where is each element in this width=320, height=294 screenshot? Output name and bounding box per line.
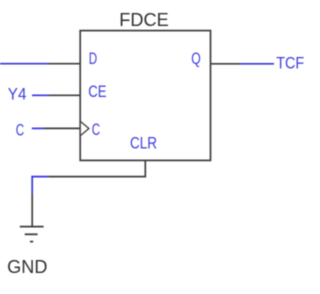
svg-text:D: D (89, 49, 97, 68)
wire to ground (black vertical) (31, 194, 33, 227)
wire CLR net vertical (blue segment) (31, 176, 33, 194)
wire CLR net vertical (black, from box bottom) (144, 161, 146, 177)
wire Y4 net (blue segment) (32, 94, 49, 96)
wire CLR net horizontal (blue segment) (31, 176, 48, 178)
svg-text:C: C (16, 121, 24, 140)
wire CE stub (black segment to pin CE) (49, 94, 80, 96)
flip-flop U1 FDCE symbol body (80, 31, 210, 161)
svg-text:CE: CE (88, 82, 106, 101)
svg-text:Q: Q (191, 49, 201, 68)
ground symbol (20, 227, 44, 242)
clock triangle marker on pin C (81, 122, 89, 136)
wire CLR net horizontal (black segment) (48, 176, 146, 178)
wire D input stub (black segment to pin D) (49, 63, 80, 65)
svg-text:FDCE: FDCE (119, 10, 168, 30)
svg-text:CLR: CLR (130, 134, 157, 153)
wire Q output stub (black segment from pin Q) (211, 63, 240, 65)
wire D input net (blue segment) (0, 63, 49, 65)
wire C clock stub (black segment to clock pin) (44, 127, 80, 129)
wire C clock net (blue segment) (32, 127, 44, 129)
wire TCF net (blue segment) (240, 63, 275, 65)
svg-text:TCF: TCF (276, 54, 304, 73)
svg-text:C: C (92, 120, 100, 139)
svg-text:Y4: Y4 (8, 84, 27, 103)
svg-text:GND: GND (7, 257, 47, 277)
